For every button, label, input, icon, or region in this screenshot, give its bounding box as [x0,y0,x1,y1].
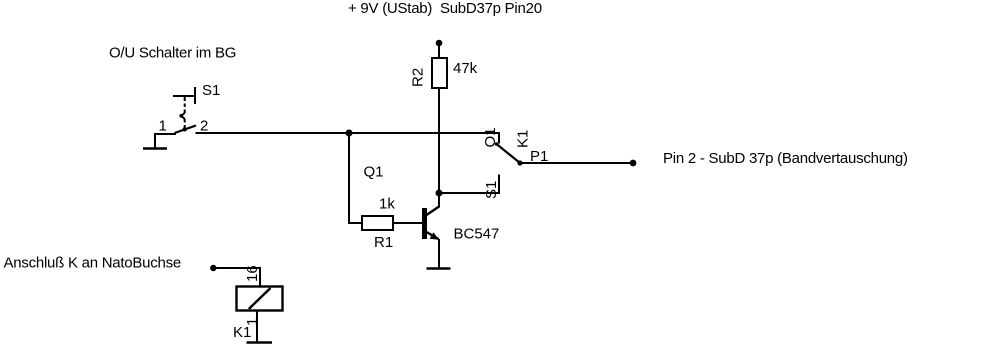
svg-text:1: 1 [159,118,167,135]
wire: R2 bottom to collector node (crosses main wire) [438,88,440,193]
relay contact K1 pivot dot P1 [517,160,522,165]
wire: main wire from switch terminal 2 to contact O1 [196,132,500,134]
wire: emitter down to ground [438,239,440,268]
relay coil K1 [237,287,283,311]
switch S1 actuator dashed link [181,96,185,129]
relay contact K1 terminal bar O1 [498,132,500,144]
svg-text:2: 2 [200,118,208,135]
switch S1 blade pivot blob [183,127,187,131]
svg-text:1k: 1k [379,196,395,213]
svg-text:O/U Schalter im BG: O/U Schalter im BG [109,45,236,62]
resistor R2 [432,58,447,88]
relay contact K1 blade tip dot [495,142,499,146]
switch S1 actuator top bar [173,95,195,97]
svg-text:Anschluß K an NatoBuchse: Anschluß K an NatoBuchse [4,255,181,272]
transistor Q1 base bar [422,208,427,239]
switch S1 blade [175,126,197,134]
node: junction dot on main wire [346,130,353,137]
svg-text:+ 9V (UStab) SubD37p Pin20: + 9V (UStab) SubD37p Pin20 [348,0,542,17]
wire: input dot to coil top [213,268,260,286]
svg-text:BC547: BC547 [454,226,500,243]
relay coil K1 diagonal [249,288,271,309]
svg-text:K1: K1 [515,130,532,148]
svg-text:47k: 47k [453,60,478,77]
wire: switch terminal 1 stub [155,134,176,148]
ground at coil bottom [247,341,273,344]
resistor R1 [362,216,393,230]
svg-text:S1: S1 [483,181,500,199]
switch S1 spring dot [179,114,183,118]
wire: collector up to node [438,193,440,208]
transistor Q1 collector stroke [427,207,440,216]
node: output terminal dot [630,160,637,167]
relay contact K1 blade [497,144,521,163]
node: collector junction dot [436,190,443,197]
svg-text:K1: K1 [233,324,251,341]
node: +9V terminal dot [436,40,443,47]
wire: R1 to transistor base [393,222,422,224]
svg-text:R1: R1 [374,234,393,251]
wire: junction down and right to R1 [349,133,362,223]
ground bar at switch terminal 1 [143,147,167,150]
wire: coil bottom to ground [256,310,258,342]
svg-text:R2: R2 [410,68,427,87]
node: coil input terminal dot [210,265,216,271]
wire: collector node to contact S1 terminal [439,192,499,194]
svg-text:S1: S1 [202,82,220,99]
svg-text:Q1: Q1 [364,164,384,181]
wire: +9V dot to R2 top [438,43,440,58]
svg-text:16: 16 [244,265,261,282]
wire: P1 to output node [520,162,633,164]
switch S1 actuator side bar [194,87,196,104]
svg-text:Pin 2 - SubD 37p (Bandvertausc: Pin 2 - SubD 37p (Bandvertauschung) [663,150,908,167]
relay contact K1 terminal bar S1 [498,175,500,195]
transistor Q1 emitter stroke [427,232,439,239]
ground at emitter [427,267,451,270]
transistor Q1 emitter arrowhead [430,232,439,240]
